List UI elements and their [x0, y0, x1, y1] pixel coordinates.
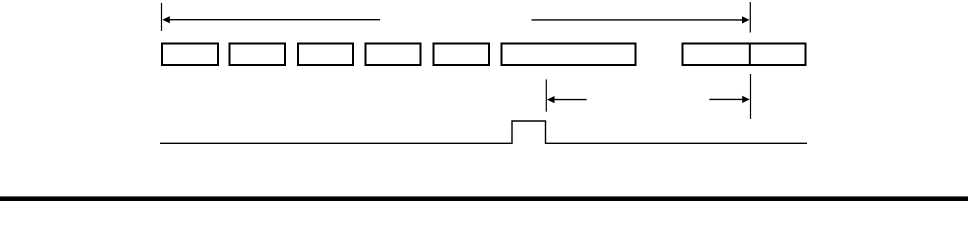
wire tick left dimension boundary — [161, 3, 163, 31]
wire middle-right arrow line — [709, 98, 743, 100]
box scan segment 2 — [230, 44, 286, 66]
wire left dimension arrow line — [168, 19, 380, 21]
node right arrowhead — [742, 16, 750, 23]
box divided segment 7 — [683, 44, 806, 66]
wire bottom rule bar — [0, 196, 968, 201]
box scan segment 3 — [298, 44, 353, 66]
node middle-right arrowhead — [742, 96, 750, 103]
wire pulse waveform — [160, 121, 807, 143]
box long scan segment 6 — [502, 44, 636, 66]
wire divider in segment 7 — [749, 43, 751, 67]
wire middle-left arrow line — [552, 99, 587, 101]
box scan segment 1 — [162, 44, 218, 66]
node left arrowhead — [162, 16, 170, 23]
wire tick right dimension boundary — [749, 2, 751, 33]
box scan segment 4 — [366, 44, 421, 66]
wire vertical boundary through pulse region — [750, 74, 752, 119]
wire tick middle-left boundary — [545, 79, 547, 111]
box scan segment 5 — [434, 44, 490, 66]
wire right dimension arrow line — [532, 19, 744, 21]
node middle-left arrowhead — [547, 96, 555, 103]
